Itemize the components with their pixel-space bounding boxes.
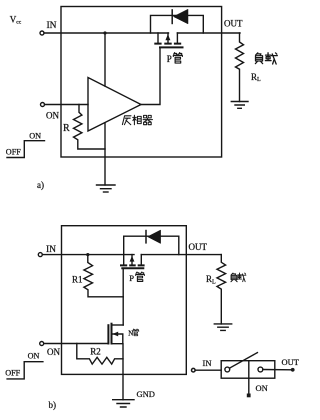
svg-text:ON: ON [29, 131, 41, 140]
svg-text:OFF: OFF [5, 369, 20, 378]
svg-text:GND: GND [137, 389, 155, 399]
svg-text:P: P [167, 54, 172, 64]
svg-text:IN: IN [203, 358, 212, 368]
svg-text:a): a) [37, 180, 44, 190]
svg-text:P: P [129, 273, 134, 283]
svg-text:IN: IN [47, 21, 57, 31]
svg-text:R2: R2 [90, 347, 101, 357]
svg-text:OUT: OUT [282, 357, 300, 367]
svg-text:ON: ON [46, 111, 59, 121]
svg-text:N: N [128, 330, 133, 338]
svg-text:IN: IN [46, 245, 56, 255]
svg-text:R: R [63, 123, 70, 134]
svg-text:ON: ON [28, 352, 40, 361]
svg-text:OFF: OFF [6, 147, 21, 156]
svg-text:OUT: OUT [224, 19, 243, 29]
svg-text:ON: ON [47, 347, 60, 357]
svg-text:OUT: OUT [189, 242, 208, 252]
svg-text:ON: ON [256, 383, 268, 393]
svg-text:R1: R1 [72, 275, 83, 285]
svg-text:b): b) [49, 400, 57, 410]
